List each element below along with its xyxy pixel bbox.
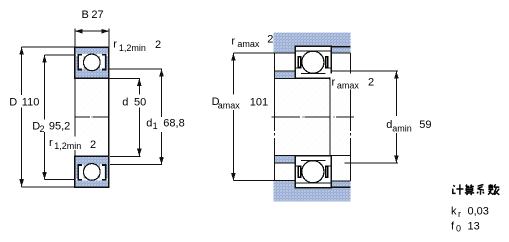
right view left break line (dash-dot) [273, 53, 275, 181]
svg-text:0: 0 [456, 224, 461, 234]
dimension B line [75, 30, 109, 32]
svg-text:amax: amax [218, 101, 241, 111]
svg-text:0,03: 0,03 [468, 206, 489, 218]
svg-text:50: 50 [134, 97, 146, 109]
glyph 系 [477, 185, 484, 195]
svg-text:2: 2 [267, 34, 273, 46]
svg-text:r: r [332, 77, 336, 89]
svg-text:D: D [9, 97, 17, 109]
right view housing shoulder top-left [274, 47, 296, 54]
white gaps beside ball [79, 165, 84, 179]
svg-text:r: r [231, 36, 235, 48]
svg-text:2: 2 [40, 124, 45, 134]
seal right [325, 165, 329, 178]
dimension Damax line [232, 53, 234, 181]
svg-text:k: k [451, 206, 457, 218]
dimension damin extension lines [331, 70, 398, 72]
svg-text:2: 2 [368, 77, 374, 89]
svg-text:amax: amax [237, 39, 260, 49]
svg-text:r: r [458, 209, 461, 219]
seal right [102, 55, 106, 70]
outer ring raceway line [296, 50, 331, 52]
right view housing band top edge line bottom [295, 186, 351, 188]
dimension d1 extension lines [109, 68, 163, 70]
left view bore side lines [74, 78, 76, 156]
seal left [78, 165, 82, 180]
label D2 95,2 [31, 120, 72, 133]
svg-text:27: 27 [91, 9, 103, 21]
svg-text:r: r [113, 39, 117, 51]
caption calculation factors (Chinese 计算系数 drawn as paths) [453, 184, 500, 195]
right view bore step vertical line between halves [329, 79, 331, 156]
svg-text:B: B [82, 9, 89, 21]
left view bottom bearing section [75, 156, 109, 187]
right view right break line (dash-dot) [350, 53, 352, 181]
left view top bearing section [75, 47, 109, 78]
right view top bearing body [295, 46, 331, 78]
seal recess white row [76, 54, 108, 56]
section border [75, 156, 109, 187]
dimension D line [21, 47, 23, 187]
right view housing shoulder bottom-left [274, 181, 296, 187]
seal right [102, 165, 106, 180]
ball [84, 54, 101, 71]
inner ring shoulder lines [296, 67, 331, 69]
svg-text:1,2min: 1,2min [54, 141, 81, 151]
right view housing strip top-right [331, 47, 350, 53]
left view shaft bore area (faint hatch) [75, 79, 109, 157]
right view bottom bearing body [295, 156, 331, 188]
right view housing strip bottom-right [331, 181, 350, 187]
seal left [298, 165, 302, 178]
glyph 计 [453, 184, 464, 194]
right view centre line (dash-dot) [271, 116, 354, 118]
section border [75, 47, 109, 78]
dimension D2 extension lines [45, 54, 75, 56]
svg-text:2: 2 [155, 39, 161, 51]
svg-text:2: 2 [90, 139, 96, 151]
right view shaft shoulder strip top line [274, 70, 295, 72]
glyph 数 [488, 184, 499, 195]
label d1 68,8 [145, 118, 185, 132]
svg-text:59: 59 [419, 119, 431, 131]
white gaps beside ball [79, 56, 84, 70]
seal left [78, 55, 82, 70]
ball [302, 51, 324, 73]
right view housing band bottom edge line top [295, 46, 351, 48]
right view housing blue band bottom [274, 187, 351, 201]
dimension D extension lines [22, 46, 75, 48]
label r amax 2 (middle) with leader arrow [331, 74, 376, 90]
right view housing blue band top [274, 33, 351, 47]
dimension d line [138, 78, 140, 156]
svg-text:1: 1 [153, 121, 158, 131]
svg-text:r: r [49, 137, 53, 149]
right view shaft shoulder strip bottom line [274, 162, 295, 164]
svg-text:95,2: 95,2 [49, 121, 70, 133]
dimension D2 line [44, 55, 46, 180]
outer ring raceway line [296, 182, 331, 184]
seal right [325, 56, 329, 69]
right view shaft surface top line [274, 78, 350, 80]
svg-text:d: d [146, 118, 152, 130]
svg-text:amin: amin [392, 124, 412, 134]
seal left [298, 56, 302, 69]
right view shaft area (faint hatch) [274, 53, 350, 181]
right view shaft shoulder strip top [274, 71, 295, 78]
svg-text:68,8: 68,8 [163, 118, 184, 130]
dimension d extension lines [109, 77, 140, 79]
dimension d1 line [161, 69, 163, 165]
svg-text:d: d [122, 97, 128, 109]
inner ring shoulder lines [296, 165, 331, 167]
right view housing strip top line bottom-right [331, 180, 350, 182]
ball [84, 164, 101, 181]
svg-text:13: 13 [468, 220, 480, 232]
glyph 算 [465, 185, 474, 196]
dimension B extension lines [74, 29, 76, 47]
seal recess white row [76, 178, 108, 180]
svg-text:1,2min: 1,2min [119, 43, 146, 53]
dimension damin line [395, 71, 397, 163]
right view shaft shoulder strip bottom [274, 156, 295, 163]
svg-text:110: 110 [22, 97, 40, 109]
dimension Damax extension lines [233, 52, 295, 54]
left view centre line (dash-dot) [75, 116, 109, 118]
label r 1,2min 2 (bottom) [48, 137, 98, 151]
ball [302, 161, 324, 183]
svg-text:amax: amax [337, 81, 360, 91]
svg-text:101: 101 [250, 97, 268, 109]
right view shaft surface bottom line [274, 154, 350, 156]
right view housing strip bottom line top-right [331, 52, 350, 54]
